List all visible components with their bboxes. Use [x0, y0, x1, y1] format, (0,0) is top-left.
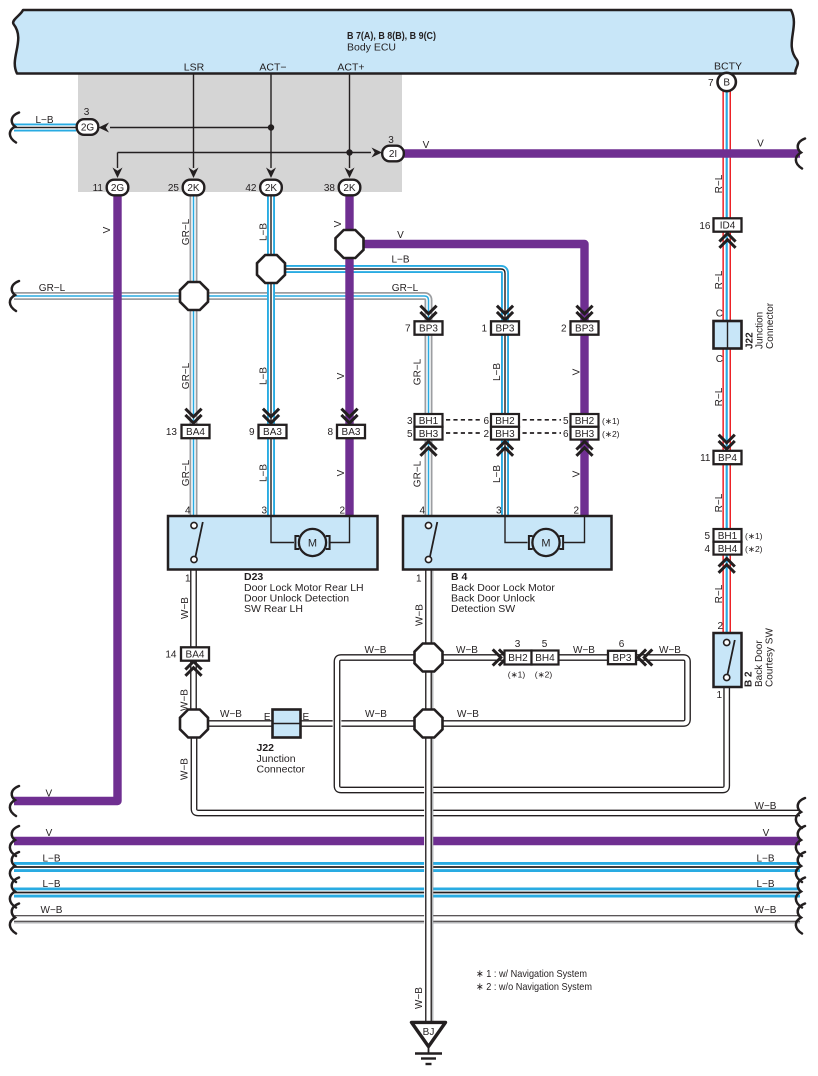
connector BA3 pin 8 [337, 425, 365, 438]
svg-text:W−B: W−B [365, 645, 387, 656]
svg-text:BP3: BP3 [613, 653, 632, 664]
ACT- pin stub line [270, 74, 272, 169]
svg-text:Connector: Connector [765, 302, 776, 349]
svg-text:BP3: BP3 [496, 324, 515, 335]
connector BH1 pin3 / BH3 pin5 [415, 414, 443, 427]
wire W-B to right edge [194, 738, 800, 813]
wire V from 2I to right edge [404, 149, 800, 157]
svg-text:(∗2): (∗2) [745, 544, 763, 554]
svg-text:BA4: BA4 [186, 650, 205, 661]
svg-text:1: 1 [185, 574, 191, 585]
internal wire to motor left [505, 516, 528, 543]
connector BA4 pin 13 [182, 425, 210, 438]
svg-text:SW Rear LH: SW Rear LH [244, 603, 303, 615]
svg-text:(∗1): (∗1) [508, 670, 526, 680]
svg-text:W−B: W−B [414, 987, 425, 1009]
bus wire V [14, 837, 800, 845]
svg-text:(∗2): (∗2) [602, 429, 620, 439]
svg-text:(∗1): (∗1) [745, 531, 763, 541]
ground BJ [412, 1022, 446, 1046]
svg-text:V: V [45, 789, 52, 800]
svg-text:B 2: B 2 [744, 671, 755, 687]
svg-text:Back Door: Back Door [754, 640, 765, 687]
svg-text:W−B: W−B [180, 597, 191, 619]
svg-text:W−B: W−B [180, 689, 191, 711]
connector arrow down BP3-2 [576, 306, 592, 314]
svg-text:5: 5 [704, 531, 710, 542]
internal wire to motor right [331, 516, 350, 543]
svg-text:W−B: W−B [457, 709, 479, 720]
svg-text:B: B [723, 78, 730, 89]
svg-text:W−B: W−B [180, 758, 191, 780]
svg-text:BH2: BH2 [495, 416, 515, 427]
svg-text:W−B: W−B [456, 645, 478, 656]
torn edge bus left [10, 826, 19, 856]
svg-text:2: 2 [717, 621, 723, 632]
arrow into 2I-3 [372, 148, 383, 158]
svg-text:GR−L: GR−L [181, 459, 192, 486]
svg-text:1: 1 [481, 324, 487, 335]
internal wire to motor left [271, 516, 294, 543]
svg-text:6: 6 [483, 416, 489, 427]
switch B2 Back Door Courtesy SW [714, 633, 742, 687]
svg-text:(∗2): (∗2) [535, 670, 553, 680]
connector BH1 pin 5 / BH4 pin 4 [714, 529, 742, 542]
svg-text:ID4: ID4 [720, 221, 736, 232]
torn edge bus left [10, 852, 19, 882]
junction connector J22 (W-B) [273, 710, 301, 738]
svg-text:V: V [572, 470, 583, 477]
svg-text:4: 4 [419, 506, 425, 517]
svg-text:6: 6 [563, 429, 569, 440]
svg-text:2: 2 [339, 506, 345, 517]
internal wire to 2G-3 [110, 127, 271, 129]
connector arrow down BA3 [263, 409, 279, 417]
svg-text:7: 7 [708, 78, 714, 89]
svg-text:V: V [46, 828, 53, 839]
svg-text:L−B: L−B [35, 115, 53, 126]
wire R-L BCTY to B2 [722, 90, 731, 633]
svg-text:GR−L: GR−L [181, 362, 192, 389]
connector arrow right BH2/BH4 [493, 649, 501, 665]
arrow into 2K-25 [189, 168, 199, 179]
torn edge bus right [796, 852, 805, 882]
svg-text:3: 3 [388, 135, 394, 146]
junction dot ACT- [268, 124, 274, 130]
svg-text:9: 9 [249, 427, 255, 438]
svg-text:∗ 1 : w/ Navigation System: ∗ 1 : w/ Navigation System [476, 968, 587, 980]
motor M B4 [532, 529, 559, 556]
wire L-B horizontal to BP3-1 [271, 269, 505, 516]
svg-text:R−L: R−L [714, 270, 725, 289]
svg-text:W−B: W−B [755, 905, 777, 916]
svg-text:BP3: BP3 [575, 324, 594, 335]
wire W-B D23 to junction [189, 570, 198, 711]
wire GR-L horizontal to BP3-7 [14, 296, 429, 516]
wire W-B B4 to ground BJ [424, 570, 433, 1024]
connector 2G pin 3 [77, 119, 99, 135]
svg-text:5: 5 [407, 429, 413, 440]
arrow into 2K-42 [266, 168, 276, 179]
connector arrow up BA4-14 [185, 668, 201, 676]
wire V 2K-38 to D23 [345, 194, 353, 516]
svg-text:V: V [572, 368, 583, 375]
connector B pin 7 [718, 73, 736, 91]
svg-text:V: V [423, 140, 430, 151]
svg-text:L−B: L−B [756, 854, 774, 865]
svg-text:BP3: BP3 [419, 324, 438, 335]
torn edge V left [10, 786, 19, 816]
svg-text:42: 42 [245, 183, 257, 194]
svg-text:25: 25 [168, 183, 180, 194]
wire W-B back door loop upper [208, 658, 688, 724]
svg-text:8: 8 [327, 427, 333, 438]
svg-text:W−B: W−B [365, 709, 387, 720]
svg-text:3: 3 [515, 639, 521, 650]
internal wire corner to 2G-11 [117, 153, 119, 169]
svg-text:M: M [308, 538, 317, 550]
dashed link BH3-BH3 [523, 432, 562, 434]
svg-text:7: 7 [405, 324, 411, 335]
svg-text:BCTY: BCTY [714, 61, 742, 73]
svg-text:5: 5 [563, 416, 569, 427]
svg-text:Junction: Junction [755, 312, 766, 349]
svg-text:BJ: BJ [423, 1027, 435, 1038]
svg-text:L−B: L−B [259, 367, 270, 385]
svg-text:16: 16 [699, 221, 711, 232]
svg-text:13: 13 [166, 427, 178, 438]
torn edge bus right [796, 826, 805, 856]
connector arrow up ID4 [719, 240, 735, 248]
connector arrow down BA3 [341, 409, 357, 417]
svg-text:Detection SW: Detection SW [451, 603, 515, 615]
svg-text:11: 11 [93, 183, 104, 194]
svg-text:ACT+: ACT+ [337, 62, 364, 74]
dashed link BH2-BH2 [523, 419, 562, 421]
svg-text:11: 11 [700, 453, 711, 464]
connector arrow up BH2/BH3 [576, 448, 592, 456]
torn edge L-B left [10, 113, 19, 143]
svg-text:R−L: R−L [714, 493, 725, 512]
svg-text:L−B: L−B [492, 363, 503, 381]
svg-text:LSR: LSR [184, 62, 205, 74]
connector 2K pin 42 [260, 180, 282, 196]
svg-text:V: V [102, 226, 113, 233]
svg-text:1: 1 [416, 574, 422, 585]
svg-text:R−L: R−L [714, 387, 725, 406]
wire L-B to 2G-3 [14, 124, 76, 132]
motor assembly B4 Back Door Lock Motor [403, 516, 612, 570]
wire W-B B2 loop [337, 658, 727, 791]
svg-text:E: E [303, 712, 310, 723]
connector arrow down BP3-1 [497, 306, 513, 314]
svg-text:BP4: BP4 [718, 453, 737, 464]
wire V horizontal to BP3-2 [350, 244, 585, 516]
svg-text:L−B: L−B [42, 854, 60, 865]
svg-text:BH3: BH3 [575, 429, 595, 440]
junction node L-B [257, 255, 285, 283]
junction node W-B upper [415, 644, 443, 672]
svg-text:R−L: R−L [714, 174, 725, 193]
svg-text:3: 3 [84, 107, 90, 118]
svg-text:2G: 2G [81, 123, 95, 134]
svg-text:W−B: W−B [220, 709, 242, 720]
svg-text:BA3: BA3 [342, 427, 361, 438]
svg-text:Courtesy SW: Courtesy SW [765, 628, 776, 687]
bus wire W-B [14, 914, 800, 923]
svg-text:V: V [336, 372, 347, 379]
svg-text:V: V [757, 139, 764, 150]
svg-text:BH2: BH2 [575, 416, 595, 427]
junction node W-B lower [415, 710, 443, 738]
svg-text:14: 14 [165, 650, 177, 661]
svg-text:GR−L: GR−L [181, 218, 192, 245]
connector arrow left BP3-6 [644, 649, 652, 665]
connector arrow down BA4 [185, 409, 201, 417]
svg-text:2K: 2K [265, 183, 278, 194]
svg-text:L−B: L−B [42, 879, 60, 890]
svg-text:BH3: BH3 [419, 429, 439, 440]
svg-text:BH2: BH2 [508, 653, 528, 664]
svg-text:C: C [716, 309, 723, 320]
svg-text:L−B: L−B [492, 465, 503, 483]
svg-text:BH4: BH4 [535, 653, 555, 664]
svg-text:W−B: W−B [41, 905, 63, 916]
dashed link BH3-BH3 [446, 432, 482, 434]
svg-text:2: 2 [573, 506, 579, 517]
svg-text:∗ 2 : w/o Navigation System: ∗ 2 : w/o Navigation System [476, 981, 592, 993]
torn edge bus right [796, 798, 805, 828]
svg-text:R−L: R−L [714, 584, 725, 603]
connector BH2 pin6 / BH3 pin2 [491, 414, 519, 427]
svg-text:BH1: BH1 [419, 416, 439, 427]
connector 2I pin 3 [382, 146, 404, 162]
arrow into 2G-3 [99, 123, 110, 133]
wire GR-L 2K-25 to D23 [190, 194, 198, 516]
connector 2G pin 11 [107, 180, 129, 196]
connector arrow up BH1/BH4 [719, 565, 735, 573]
svg-text:GR−L: GR−L [39, 283, 66, 294]
svg-text:E: E [264, 712, 271, 723]
svg-text:BA4: BA4 [186, 427, 205, 438]
internal wire to 2I-3 [118, 152, 372, 154]
Body ECU internal block [78, 73, 402, 192]
torn edge bus left [10, 904, 19, 934]
svg-text:W−B: W−B [659, 645, 681, 656]
connector arrow down BP4 [719, 435, 735, 443]
svg-text:3: 3 [496, 506, 502, 517]
connector BH2 pin5 / BH3 pin6 [571, 414, 599, 427]
LSR pin stub line [193, 74, 195, 169]
junction dot ACT+ [346, 149, 352, 155]
torn edge bus right [796, 878, 805, 908]
wire L-B 2K-42 to D23 [267, 194, 275, 516]
junction node GR-L [180, 282, 208, 310]
connector 2K pin 38 [339, 180, 361, 196]
svg-text:C: C [716, 354, 723, 365]
torn edge bus left [10, 878, 19, 908]
connector 2K pin 25 [183, 180, 205, 196]
svg-text:ACT−: ACT− [259, 62, 286, 74]
internal wire to motor right [564, 516, 585, 543]
svg-text:2: 2 [561, 324, 567, 335]
svg-text:GR−L: GR−L [413, 460, 424, 487]
ACT+ pin stub line [349, 74, 351, 169]
svg-text:38: 38 [324, 183, 336, 194]
dashed link BH1-BH2 [446, 419, 482, 421]
svg-text:2K: 2K [187, 183, 200, 194]
svg-text:Connector: Connector [257, 764, 306, 776]
connector BH2 pin3 / BH4 pin5 [505, 651, 532, 665]
svg-text:2K: 2K [343, 183, 356, 194]
motor assembly D23 Door Lock Motor Rear LH [168, 516, 378, 570]
junction connector J22 (R-L) [714, 321, 742, 349]
svg-text:BH4: BH4 [718, 544, 738, 555]
bus wire L-B lower [14, 888, 800, 898]
svg-text:(∗1): (∗1) [602, 416, 620, 426]
svg-text:5: 5 [542, 639, 548, 650]
svg-text:L−B: L−B [756, 879, 774, 890]
svg-text:V: V [336, 469, 347, 476]
svg-text:BH3: BH3 [495, 429, 515, 440]
connector arrow up BH1/BH3 [420, 448, 436, 456]
connector BA4 pin 14 [181, 647, 209, 660]
svg-text:W−B: W−B [755, 801, 777, 812]
svg-text:6: 6 [619, 639, 625, 650]
connector arrow down BP3-7 [420, 306, 436, 314]
junction node W-B left [180, 710, 208, 738]
Body ECU connector banner B7/B8/B9 [13, 10, 798, 74]
wire V from 2G-11 down-left [14, 194, 118, 801]
connector BP3 pin 1 [491, 321, 519, 334]
svg-text:Body ECU: Body ECU [347, 42, 396, 54]
svg-text:L−B: L−B [259, 223, 270, 241]
torn edge GR-L left [10, 281, 19, 311]
svg-text:3: 3 [261, 506, 267, 517]
arrow into 2K-38 [345, 168, 355, 179]
svg-text:GR−L: GR−L [413, 358, 424, 385]
arrow into 2G-11 [113, 168, 123, 179]
connector BP3 pin 6 [608, 651, 636, 664]
svg-text:3: 3 [407, 416, 413, 427]
connector ID4 pin 16 [714, 218, 742, 231]
torn edge bus right [796, 904, 805, 934]
motor M D23 [299, 529, 326, 556]
svg-text:B 7(A), B 8(B), B 9(C): B 7(A), B 8(B), B 9(C) [347, 30, 436, 42]
svg-text:L−B: L−B [259, 464, 270, 482]
svg-text:2: 2 [483, 429, 489, 440]
connector BP4 pin 11 [714, 451, 742, 464]
svg-text:V: V [333, 220, 344, 227]
connector arrow up BH2/BH3 [497, 448, 513, 456]
svg-text:GR−L: GR−L [392, 283, 419, 294]
W-B gray shadow [432, 570, 434, 1023]
svg-text:L−B: L−B [391, 255, 409, 266]
torn edge V right [796, 139, 805, 169]
svg-text:V: V [763, 828, 770, 839]
junction node V [336, 230, 364, 258]
svg-text:BA3: BA3 [263, 427, 282, 438]
connector BP3 pin 7 [415, 321, 443, 334]
svg-text:W−B: W−B [415, 604, 426, 626]
connector BA3 pin 9 [259, 425, 287, 438]
svg-text:M: M [541, 538, 550, 550]
svg-text:2I: 2I [389, 149, 397, 160]
svg-text:V: V [397, 230, 404, 241]
svg-text:2G: 2G [111, 183, 125, 194]
bus W-B gray shadow [14, 922, 800, 924]
svg-text:1: 1 [716, 690, 722, 701]
svg-text:4: 4 [704, 544, 710, 555]
svg-text:BH1: BH1 [718, 531, 738, 542]
connector BP3 pin 2 [571, 321, 599, 334]
svg-text:4: 4 [185, 506, 191, 517]
svg-text:W−B: W−B [573, 645, 595, 656]
bus wire L-B upper [14, 862, 800, 872]
